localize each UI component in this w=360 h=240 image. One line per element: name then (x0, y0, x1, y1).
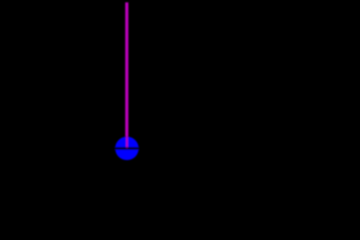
faint string glow bleeding into the band (126, 147, 128, 149)
pendulum bob (blue mass) (115, 137, 138, 161)
horizontal black band (velocity vector) through bob center (0, 147, 360, 149)
pendulum string (magenta, from top pivot to bob edge) (125, 2, 128, 136)
pendulum string lower tip over bob (thin) (126, 136, 128, 149)
